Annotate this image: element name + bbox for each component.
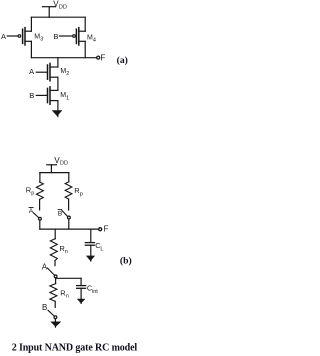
wire Rp right to switch B-bar: [68, 199, 70, 210]
svg-text:n: n: [66, 293, 69, 299]
wire M3 drain to output rail: [30, 41, 32, 57]
label Rn2: [60, 288, 68, 299]
label M2: [60, 68, 69, 77]
ground arrow CL: [87, 256, 95, 261]
switch lever A-bar: [33, 213, 39, 218]
label Rp right: [74, 186, 82, 197]
wire Cint to ground: [80, 288, 82, 303]
svg-text:DD: DD: [60, 161, 68, 167]
wire switch A-bar to output rail: [39, 220, 41, 229]
switch lever A: [47, 268, 54, 276]
VDD supply bar (a): [43, 6, 56, 8]
wire M4 drain to output rail: [84, 41, 86, 57]
transistor M2 (NMOS): [48, 63, 58, 80]
wire switch B-bar to output rail: [68, 219, 70, 229]
svg-text:(b): (b): [120, 255, 132, 266]
wire rail to resistor Rp left: [39, 173, 41, 182]
ground arrow (a): [52, 111, 62, 116]
wire M1 source to ground: [57, 101, 59, 117]
node F circle (b): [99, 228, 102, 231]
wire Rn2 to switch B: [54, 301, 56, 307]
wire input B to M4 gate: [59, 35, 72, 37]
label Rp left: [26, 185, 34, 196]
wire output rail to M2 drain: [57, 58, 59, 67]
node F circle (a): [97, 56, 100, 59]
wire Rp left to switch A-bar: [39, 199, 41, 210]
output rail wire (b): [40, 228, 99, 230]
svg-text:2 Input NAND gate RC model: 2 Input NAND gate RC model: [12, 343, 138, 354]
VDD feed wire (b): [50, 165, 52, 173]
svg-text:int: int: [92, 289, 98, 295]
capacitor CL: [85, 243, 94, 246]
svg-text:p: p: [80, 192, 83, 198]
transistor M3 (PMOS): [18, 28, 31, 45]
output rail wire (a): [31, 57, 96, 59]
wire rail to resistor Rp right: [68, 173, 70, 182]
label M4: [87, 35, 96, 44]
wire rail to capacitor CL: [90, 229, 92, 242]
svg-text:3: 3: [40, 37, 43, 43]
label Cint: [87, 284, 98, 295]
svg-text:B: B: [42, 303, 47, 312]
transistor M4 (PMOS): [73, 28, 86, 45]
wire junction to Cint: [56, 277, 82, 279]
label B-bar switch: [58, 210, 63, 218]
switch lever B: [48, 310, 55, 316]
VDD rail (a): [31, 16, 85, 18]
wire Rn1 to switch A: [54, 261, 56, 266]
svg-text:A: A: [29, 208, 34, 215]
svg-text:A: A: [42, 263, 48, 272]
svg-text:A: A: [29, 67, 34, 76]
switch contact circle B: [54, 316, 57, 319]
label CL: [95, 241, 103, 252]
switch lever B-bar: [62, 211, 68, 217]
wire input B to M1 gate: [36, 94, 47, 96]
label M3: [34, 34, 43, 43]
svg-text:p: p: [31, 191, 34, 197]
svg-text:B: B: [58, 210, 63, 217]
resistor Rn1: [50, 239, 57, 261]
label VDD (b): [54, 156, 68, 167]
wire switch B to ground: [54, 319, 56, 327]
svg-text:n: n: [65, 249, 68, 255]
wire node to junction: [55, 278, 57, 284]
wire M2 source to M1 drain: [57, 77, 59, 90]
VDD supply bar (b): [47, 164, 57, 166]
wire CL to ground: [90, 245, 92, 261]
label A-bar switch: [29, 208, 34, 216]
switch contact circle B-bar: [68, 216, 71, 219]
svg-text:F: F: [100, 54, 105, 63]
svg-text:1: 1: [66, 95, 69, 101]
resistor Rn2: [50, 284, 57, 302]
resistor Rp right: [65, 182, 72, 199]
wire rail to resistor Rn1: [54, 229, 56, 239]
svg-text:(a): (a): [117, 55, 128, 66]
VDD feed wire (a): [48, 7, 50, 18]
svg-text:L: L: [100, 246, 103, 252]
svg-text:DD: DD: [59, 5, 67, 11]
ground arrow (b): [51, 322, 61, 327]
label VDD (a): [53, 0, 67, 11]
svg-text:F: F: [104, 224, 109, 233]
svg-text:A: A: [1, 32, 6, 41]
svg-text:4: 4: [93, 37, 96, 43]
wire junction to capacitor Cint: [80, 278, 82, 285]
ground arrow Cint: [78, 299, 85, 303]
label Rn1: [59, 244, 67, 255]
switch contact circle A: [54, 275, 57, 278]
switch contact circle A-bar: [39, 217, 42, 220]
wire M3 source to VDD rail: [30, 17, 32, 31]
svg-text:B: B: [29, 91, 34, 100]
svg-text:2: 2: [66, 71, 69, 77]
resistor Rp left: [36, 182, 43, 199]
VDD rail (b): [40, 172, 69, 174]
svg-text:B: B: [53, 32, 58, 41]
wire input A to M2 gate: [36, 71, 47, 73]
capacitor Cint: [77, 286, 86, 289]
wire input A to M3 gate: [7, 35, 18, 37]
wire M4 source to VDD rail: [84, 17, 86, 31]
transistor M1 (NMOS): [48, 87, 58, 104]
label M1: [60, 92, 69, 101]
